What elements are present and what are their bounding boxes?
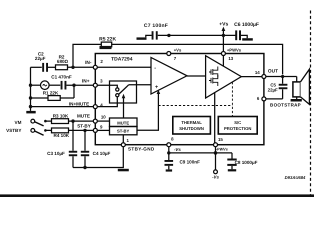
capacitor C8 1000uF	[227, 153, 257, 169]
node pin 10 MUTE terminal	[77, 114, 106, 123]
resistor R5 22K (feedback)	[99, 36, 116, 47]
svg-text:+Vs: +Vs	[219, 22, 228, 28]
svg-text:+: +	[155, 85, 158, 91]
wire interstage op-amp to power stage	[187, 75, 206, 77]
wire dashed into S/C protection (vertical)	[231, 82, 233, 116]
svg-text:IN-: IN-	[85, 60, 92, 66]
wire pin 13 internal down	[222, 56, 224, 67]
svg-text:22µF: 22µF	[35, 56, 46, 61]
wire pin 4 row	[31, 106, 94, 108]
svg-text:MUTE: MUTE	[117, 120, 129, 125]
svg-text:+PWVs: +PWVs	[227, 48, 242, 53]
capacitor C7 100nF	[144, 23, 168, 40]
node pin 13 +PWVs terminal	[221, 48, 241, 61]
svg-text:R4 10K: R4 10K	[54, 133, 70, 138]
wire border right (dashed)	[310, 11, 312, 195]
node pin 8 -Vs terminal	[167, 136, 182, 151]
ground (input common bar)	[26, 111, 35, 114]
resistor R4 10K (stand-by)	[45, 128, 85, 138]
power stage triangle	[206, 56, 242, 98]
svg-text:-: -	[154, 66, 156, 72]
svg-text:PROTECTION: PROTECTION	[224, 126, 251, 131]
node pin 2 IN- terminal	[85, 59, 103, 69]
node pin 15 -PWVs terminal	[214, 137, 228, 152]
wire pin 2 internal to op-amp minus input	[97, 66, 151, 68]
wire pin 9 internal	[97, 129, 109, 131]
svg-text:C4 10µF: C4 10µF	[93, 151, 111, 156]
node pin 3 IN+ terminal	[82, 78, 103, 87]
resistor R1 22K	[43, 90, 60, 100]
wire R2 to pin 2 with feedback junction	[68, 66, 94, 68]
svg-text:R1 22K: R1 22K	[43, 90, 59, 95]
ground (C8)	[228, 169, 236, 171]
svg-text:13: 13	[228, 56, 233, 61]
capacitor C1 470nF	[51, 74, 72, 89]
internal mute switch box	[97, 81, 151, 107]
wire C1 to pin 3 with R1 junction	[66, 84, 93, 86]
svg-text:OUT: OUT	[268, 68, 278, 74]
ground (C9)	[166, 169, 172, 171]
ground (C6 right plate ground)	[241, 35, 253, 40]
input signal source	[41, 81, 50, 90]
wire dashed bootstrap/control (horizontal)	[158, 105, 232, 107]
wire C3/C4 ground bus to pin 1	[73, 147, 123, 168]
wire IN- row external	[31, 66, 42, 68]
capacitor C5 22uF (bootstrap)	[268, 77, 288, 99]
wire input source lead	[31, 84, 41, 86]
black mark above IC top-left corner	[100, 46, 112, 49]
ground (speaker)	[291, 99, 302, 102]
node pin 14 OUT terminal	[255, 68, 278, 78]
wire power stage output to pin 14	[241, 76, 262, 78]
svg-text:C7 100nF: C7 100nF	[144, 23, 168, 29]
block MUTE	[110, 118, 138, 127]
wire pin 1 internal from ST-BY block	[122, 135, 124, 143]
svg-text:IN+MUTE: IN+MUTE	[69, 102, 89, 107]
svg-text:TDA7294: TDA7294	[111, 57, 133, 63]
wire power stage to pin 15	[214, 92, 216, 142]
svg-text:VM: VM	[15, 120, 22, 125]
block S/C PROTECTION	[218, 117, 257, 135]
ground (pin 1 / C3 / C4 bar)	[118, 169, 129, 172]
svg-text:-PWVs: -PWVs	[216, 148, 228, 152]
speaker	[293, 69, 310, 104]
capacitor C6 1000uF	[234, 22, 259, 40]
node pin 6 BOOTSTRAP terminal	[257, 96, 301, 107]
svg-text:S/C: S/C	[234, 120, 241, 125]
svg-text:C1 470nF: C1 470nF	[51, 74, 72, 79]
capacitor C3 10uF (mute)	[47, 121, 77, 167]
block ST-BY	[110, 127, 138, 135]
resistor R3 10K (mute)	[45, 114, 73, 124]
svg-text:VSTBY: VSTBY	[6, 128, 21, 133]
wire pin 6 to C5	[266, 98, 283, 100]
node +Vs supply flag	[219, 22, 228, 36]
mute control arrow into switch	[122, 94, 126, 118]
node pin 1 STBY-GND terminal	[121, 138, 155, 152]
wire R1 row	[31, 97, 75, 99]
wire pin 10 internal	[97, 120, 109, 122]
wire R1 branch vertical	[73, 85, 75, 98]
svg-text:-Vs: -Vs	[212, 174, 219, 179]
wire +Vs rail	[158, 34, 236, 36]
wire C2 to R2	[48, 66, 56, 68]
svg-text:SHUTDOWN: SHUTDOWN	[179, 126, 204, 131]
svg-text:C6 1000µF: C6 1000µF	[234, 22, 259, 28]
svg-text:ST-BY: ST-BY	[77, 124, 91, 129]
capacitor C4 10uF (stand-by)	[81, 130, 111, 167]
transistor Q2 (lower DMOS glyph)	[209, 75, 218, 86]
svg-text:R3 10K: R3 10K	[53, 114, 69, 119]
op-amp U1 input stage triangle	[151, 58, 187, 95]
wire -Vs flag	[215, 153, 217, 170]
svg-text:15: 15	[218, 137, 223, 142]
wire border bottom	[0, 194, 314, 197]
node junction on +Vs rail above pin 7	[167, 34, 170, 37]
svg-text:+Vs: +Vs	[174, 47, 182, 52]
wire mute row to pin 10	[73, 120, 93, 122]
svg-text:14: 14	[255, 70, 260, 75]
switch VM (mute)	[15, 119, 47, 126]
wire ST-BY block to stand-by arrow	[137, 93, 158, 131]
svg-text:R5 22K: R5 22K	[99, 36, 116, 42]
node -Vs supply flag	[212, 170, 219, 179]
wire source to C1	[49, 84, 60, 86]
switch VSTBY (stand-by)	[6, 128, 47, 135]
node pin 9 ST-BY terminal	[77, 124, 103, 133]
wire OUT row to speaker	[266, 76, 297, 78]
wire stby row to pin 9	[85, 129, 93, 131]
svg-text:D93AU684: D93AU684	[285, 175, 306, 180]
capacitor C2 22uF	[35, 51, 48, 72]
svg-text:C8 1000µF: C8 1000µF	[235, 160, 258, 165]
svg-text:THERMAL: THERMAL	[181, 120, 202, 125]
stand-by control arrow into op-amp	[157, 90, 161, 94]
svg-text:C9 100nF: C9 100nF	[179, 160, 200, 165]
svg-text:-Vs: -Vs	[174, 147, 181, 152]
resistor R2 680 Ohm	[56, 55, 69, 70]
capacitor C9 100nF	[165, 153, 201, 170]
transistor Q1 (upper DMOS glyph)	[209, 67, 218, 78]
wire feedback from IN- node over IC to OUT node	[73, 44, 283, 74]
svg-text:BOOTSTRAP: BOOTSTRAP	[270, 103, 301, 108]
svg-text:STBY-GND: STBY-GND	[128, 147, 155, 152]
wire -Vs bus	[169, 147, 232, 153]
svg-text:10: 10	[101, 114, 106, 119]
svg-text:680Ω: 680Ω	[57, 59, 69, 64]
svg-text:22µF: 22µF	[268, 87, 278, 92]
block THERMAL SHUTDOWN	[173, 117, 211, 135]
svg-text:MUTE: MUTE	[77, 114, 90, 119]
svg-text:C3 10µF: C3 10µF	[47, 151, 65, 156]
IC op-amp block TDA7294	[95, 54, 264, 145]
node pin 4 IN+MUTE terminal	[69, 102, 103, 109]
svg-text:ST-BY: ST-BY	[117, 129, 130, 134]
ground vertical (input common)	[30, 67, 32, 111]
ground (C7 left plate ground, top-left)	[137, 35, 152, 39]
node pin 7 +Vs terminal	[167, 47, 182, 61]
svg-text:IN+: IN+	[82, 79, 90, 85]
wire from +Vs rail down to pin 13	[222, 35, 224, 51]
